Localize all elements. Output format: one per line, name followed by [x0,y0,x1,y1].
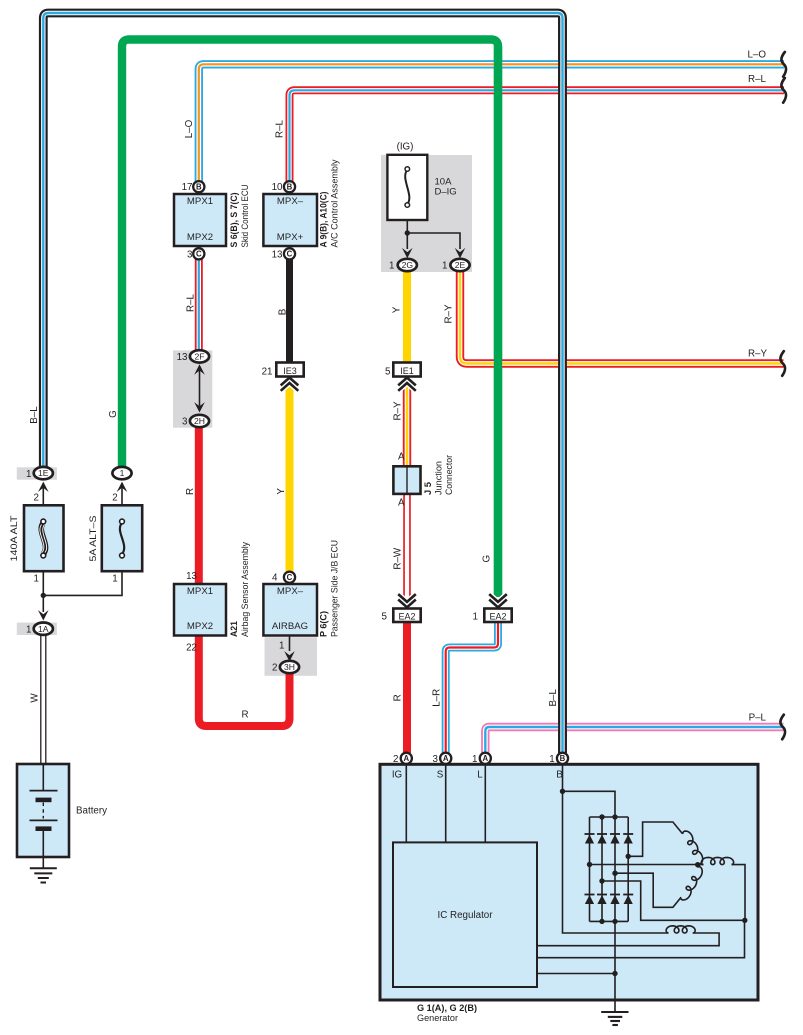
wire R junction 2H to airbag sensor and to 3H [199,426,290,726]
wire fuse outputs junction to 1A [41,570,122,612]
svg-text:A: A [398,498,405,509]
svg-text:1: 1 [442,261,447,272]
connector 1E [17,467,57,480]
svg-text:IG: IG [392,770,402,781]
wire W 1A to battery (white wire) [41,635,46,765]
svg-text:EA2: EA2 [398,612,415,622]
svg-text:P 6(C): P 6(C) [319,611,329,637]
stator coil top [683,831,703,864]
svg-text:P–L: P–L [749,713,767,724]
svg-text:Skid Control ECU: Skid Control ECU [240,185,250,248]
pin A generator L [480,753,491,764]
svg-text:1E: 1E [38,468,49,478]
connector 1A [17,623,57,636]
svg-text:AIRBAG: AIRBAG [272,621,308,632]
svg-text:B: B [278,308,289,315]
connector chevrons EA2 (R-W) [398,594,416,607]
svg-text:R–Y: R–Y [444,304,455,324]
skid control ECU box S6(B),S7(C) [174,194,226,246]
svg-text:L–R: L–R [432,689,443,707]
svg-text:Junction: Junction [434,461,444,495]
connector 3H [280,661,299,673]
generator pin stub lines IG S L [406,764,485,842]
svg-text:2: 2 [112,493,117,504]
fuse 10A D-IG box [387,155,427,220]
stator winding connections [587,822,748,923]
svg-text:R: R [241,710,248,721]
svg-text:1: 1 [26,624,31,635]
arrow into 2G [402,248,413,258]
svg-text:C: C [287,573,293,582]
svg-text:D–IG: D–IG [435,187,457,198]
svg-text:Y: Y [391,306,402,313]
svg-text:4: 4 [272,573,278,584]
svg-text:IC Regulator: IC Regulator [438,910,494,921]
svg-text:(IG): (IG) [397,142,414,153]
svg-text:R–Y: R–Y [393,401,404,421]
connector box EA2 pin 5 [393,609,420,623]
svg-text:B–L: B–L [548,689,559,707]
svg-text:EA2: EA2 [489,612,506,622]
svg-text:IE3: IE3 [283,366,297,376]
break symbol P-L [780,715,785,740]
svg-text:2: 2 [272,663,277,674]
svg-text:1: 1 [473,611,478,622]
svg-text:1: 1 [26,469,31,480]
svg-text:A: A [398,452,405,463]
svg-text:MPX–: MPX– [277,196,304,207]
wire 1E arrow to 140A ALT fuse [42,483,44,506]
pin A generator IG [401,753,412,764]
arrow into 1E [38,482,49,492]
connector chevrons EA2 (G) [489,594,507,607]
wire oval1 arrow to 5A ALT-S fuse [121,483,123,506]
svg-text:IE1: IE1 [400,366,414,376]
svg-text:R–L: R–L [275,119,286,138]
airbag sensor assembly box A21 [174,584,226,636]
junction block gray area 3H [265,637,318,676]
svg-text:G: G [482,555,493,563]
svg-text:1: 1 [472,754,477,765]
svg-text:C: C [196,250,202,259]
svg-text:21: 21 [262,366,273,377]
break symbol R-L [781,78,786,103]
break symbol L-O [781,52,786,77]
connector 2E [450,259,469,271]
svg-text:B–L: B–L [29,406,40,424]
svg-text:1A: 1A [38,624,49,634]
wire L-O skid control MPX1 to right break [199,64,784,184]
svg-text:J 5: J 5 [423,482,433,495]
svg-text:MPX–: MPX– [277,586,304,597]
generator B line to rectifier and rotor [560,764,669,933]
passenger side J/B ECU box P6(C) [263,584,317,636]
svg-text:C: C [287,250,293,259]
stator coil right [698,857,745,920]
svg-text:MPX2: MPX2 [187,621,213,632]
arrow into 2H [194,402,205,412]
svg-text:A21: A21 [229,621,239,637]
wire R-W J5 to EA2 [403,492,411,602]
arrow into 2F [194,364,205,374]
wire R-L A/C MPX- to right break [290,90,785,184]
pin B A/C [284,181,295,192]
wire AIRBAG pin 1 to 3H [289,636,291,652]
break symbol R-Y [780,351,785,376]
pin A generator S [440,753,451,764]
pin B skid [193,181,204,192]
svg-text:L–O: L–O [184,119,195,138]
svg-text:R: R [393,694,404,701]
wire R EA2 to generator IG [403,620,411,753]
svg-text:2: 2 [34,493,39,504]
svg-text:2E: 2E [455,260,466,270]
wire P-L right break to generator L [485,727,783,753]
svg-text:10: 10 [272,182,283,193]
svg-text:L–O: L–O [747,50,766,61]
svg-text:5A ALT–S: 5A ALT–S [88,516,99,562]
svg-text:3: 3 [432,754,438,765]
svg-text:13: 13 [272,250,283,261]
arrow into 2E [455,248,466,258]
svg-text:A 9(B), A10(C): A 9(B), A10(C) [319,192,329,248]
connector chevrons IE3 [281,378,299,391]
rectifier diodes top row [585,834,634,844]
svg-text:22: 22 [186,643,197,654]
svg-text:1: 1 [279,641,284,652]
connector box IE3 pin 21 [276,363,303,377]
battery box [17,764,69,857]
svg-text:1: 1 [549,754,554,765]
svg-text:Generator: Generator [417,1013,458,1024]
arrow into 3H [284,651,295,661]
svg-text:L: L [477,770,483,781]
svg-text:R: R [185,488,196,495]
rotor field coil [537,920,745,957]
wire B-L vertical overlay [558,18,567,753]
svg-text:B: B [556,770,563,781]
svg-text:2F: 2F [194,352,204,362]
rectifier bridge rails [590,814,629,924]
wire R-Y junction 2E to right break [460,270,784,364]
svg-text:R–L: R–L [748,74,767,85]
connector 1 (5A ALT-S) [112,467,131,479]
svg-text:A/C Control Assembly: A/C Control Assembly [330,159,340,247]
ground symbol generator [601,1012,628,1025]
wire Y fuse 2G to IE1 [403,270,411,364]
svg-text:1: 1 [120,468,125,478]
svg-text:R–L: R–L [186,293,197,312]
svg-text:B: B [287,183,293,192]
svg-text:140A ALT: 140A ALT [9,515,20,561]
arrow into oval 1 (5A) [117,482,128,492]
svg-text:A: A [403,754,409,763]
svg-text:5: 5 [382,611,388,622]
wire line between 2F and 2H arrows [199,370,201,406]
svg-text:B: B [560,754,566,763]
svg-text:13: 13 [177,352,188,363]
junction connector J5 [393,466,420,494]
svg-text:S: S [437,770,444,781]
svg-text:1: 1 [389,261,394,272]
svg-text:R–Y: R–Y [748,349,768,360]
svg-text:MPX1: MPX1 [187,196,213,207]
rectifier bridge columns [590,817,629,921]
svg-text:2H: 2H [194,416,205,426]
svg-text:A: A [482,754,488,763]
svg-text:3H: 3H [284,662,295,672]
svg-text:MPX1: MPX1 [187,586,213,597]
wire B-L battery fusible link to generator B [43,13,562,753]
svg-text:5: 5 [385,366,391,377]
pin C A/C [284,248,295,259]
IC Regulator box [393,842,537,987]
generator G1(A),G2(B) body [380,764,758,1000]
svg-text:W: W [30,693,41,703]
svg-text:Airbag Sensor Assembly: Airbag Sensor Assembly [240,542,250,637]
svg-text:Connector: Connector [444,455,454,495]
wire G 5A ALT-S fuse to EA2 [122,40,498,598]
fuse 5A ALT-S box [102,505,142,571]
A/C control assembly box A9(B),A10(C) [263,194,317,246]
pin C skid [193,248,204,259]
svg-text:A: A [443,754,449,763]
svg-text:13: 13 [186,571,197,582]
svg-text:1: 1 [34,574,39,585]
svg-text:3: 3 [182,416,188,427]
connector 2H [190,415,209,427]
wire G vertical overlay [494,47,502,598]
wire R-L skid MPX2 to junction 2F [195,259,203,352]
generator ground branch [537,921,618,1012]
wire R-Y IE1 to J5 [403,385,411,469]
arrow into 1A [38,610,49,620]
wire B A/C MPX+ to IE3 [286,259,293,364]
svg-text:Passenger Side J/B ECU: Passenger Side J/B ECU [330,540,340,637]
wire 10A D-IG fuse output to 2G and 2E [405,220,460,249]
svg-text:1: 1 [112,574,117,585]
svg-text:S 6(B), S 7(C): S 6(B), S 7(C) [229,193,239,248]
connector box IE1 pin 5 [393,363,420,377]
connector chevrons IE1 [398,378,416,391]
pin B generator [557,753,568,764]
connector 2F [190,350,209,362]
junction block gray area 2F/2H [173,350,212,427]
svg-text:B: B [196,183,202,192]
ground symbol battery [30,857,57,883]
svg-text:R–W: R–W [393,547,404,570]
fusible link 140A ALT box [24,505,64,571]
wire L-R EA2 to generator S [446,621,498,753]
wire Y IE3 to passenger JB ECU [286,385,294,573]
junction block gray area 10A D-IG fuse [381,155,472,272]
stator coil bottom [681,867,703,900]
pin C passenger JB [284,572,295,583]
svg-text:2: 2 [393,754,398,765]
rectifier diodes bottom row [585,895,634,905]
svg-text:3: 3 [187,250,193,261]
svg-text:Y: Y [276,488,287,495]
connector box EA2 pin 1 [484,609,511,623]
connector 2G [398,259,417,271]
svg-text:MPX2: MPX2 [187,232,213,243]
svg-text:G: G [108,410,119,418]
svg-text:17: 17 [182,182,193,193]
svg-text:2G: 2G [402,260,414,270]
svg-text:Battery: Battery [76,806,107,817]
svg-text:MPX+: MPX+ [277,232,304,243]
